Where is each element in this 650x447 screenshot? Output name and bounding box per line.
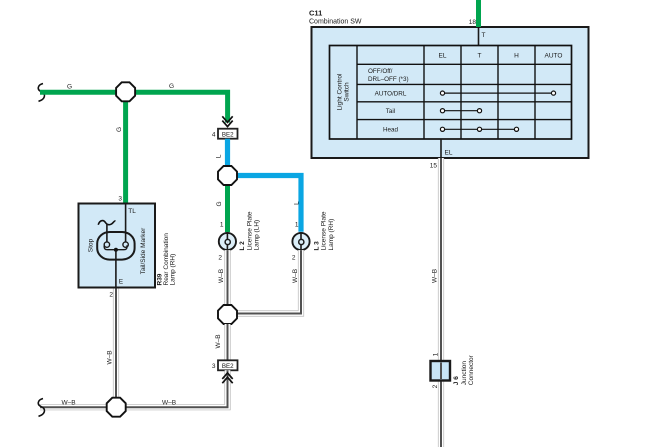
bulb of R39 (dual filament) <box>97 232 134 260</box>
lamp L2 (license plate lamp LH) <box>219 233 236 250</box>
wire: G (green) down to R39 pin 3 <box>123 92 128 204</box>
svg-text:1: 1 <box>295 222 299 229</box>
svg-text:T: T <box>482 32 486 39</box>
lamp L3 (license plate lamp RH) <box>292 233 309 250</box>
svg-text:Junction: Junction <box>461 361 468 386</box>
wire: W-B from junction down to BE2 <box>224 324 230 360</box>
svg-text:L: L <box>293 201 300 205</box>
svg-text:L 2: L 2 <box>239 241 246 251</box>
svg-text:Lamp (LH): Lamp (LH) <box>254 220 261 251</box>
switch position row labels <box>368 68 409 134</box>
svg-text:W–B: W–B <box>61 400 75 407</box>
svg-text:W–B: W–B <box>218 269 225 283</box>
stop filament open lead (squiggle) <box>98 221 115 225</box>
lamp L3 label <box>313 211 335 250</box>
svg-text:L 3: L 3 <box>313 241 320 251</box>
connector BE2 (pin 4) <box>218 129 238 139</box>
svg-text:Tail/Side Marker: Tail/Side Marker <box>140 227 147 274</box>
svg-text:EL: EL <box>445 150 453 157</box>
svg-text:Light Control: Light Control <box>337 73 344 110</box>
wire: W-B from R39 pin 2 down to junction <box>113 288 119 408</box>
svg-text:J 6: J 6 <box>453 376 460 385</box>
wire: G (green) horizontal top, turns down to BE2 <box>40 92 228 122</box>
svg-text:W–B: W–B <box>162 400 176 407</box>
wire: internal lead from bulb to pin 2 (E) <box>115 250 117 288</box>
combination switch C11 block label <box>309 9 362 26</box>
junction node (green wires) <box>116 82 135 101</box>
svg-text:3: 3 <box>118 196 122 203</box>
svg-text:Combination SW: Combination SW <box>309 19 362 26</box>
svg-text:E: E <box>119 279 124 286</box>
svg-text:L: L <box>215 154 222 158</box>
wire break (left end of W-B wire) <box>38 399 44 417</box>
svg-text:W–B: W–B <box>292 269 299 283</box>
wire: L (blue) from junction right and down to L3 <box>230 176 301 232</box>
wire: W-B from C11 pin 15 down to bottom <box>438 158 444 447</box>
bulb common node dot <box>114 248 118 252</box>
connector arrow out of BE2 (pointing up) <box>222 373 232 383</box>
svg-text:OFF/Off/: OFF/Off/ <box>368 68 393 75</box>
svg-text:Lamp (RH): Lamp (RH) <box>328 219 335 251</box>
svg-text:BE2: BE2 <box>222 131 234 138</box>
junction connector J6 <box>431 361 451 381</box>
svg-text:15: 15 <box>430 163 438 170</box>
svg-text:BE2: BE2 <box>222 363 234 370</box>
wire: G (green) into C11 pin 18 <box>476 0 481 27</box>
svg-text:2: 2 <box>109 292 113 299</box>
svg-text:C11: C11 <box>309 9 322 18</box>
svg-text:G: G <box>216 201 223 206</box>
wire: L (blue) from BE2 down to junction <box>225 139 230 176</box>
wire: internal lead from pin 3 to bulb <box>125 204 127 243</box>
rear combination lamp R39 label <box>157 233 177 286</box>
switch contacts Head row <box>440 127 518 131</box>
wire: W-B from L2 pin 2 down to junction <box>224 250 230 314</box>
svg-text:Head: Head <box>383 127 399 134</box>
svg-text:18: 18 <box>469 19 477 26</box>
svg-text:W–B: W–B <box>215 334 222 348</box>
svg-text:2: 2 <box>432 384 439 388</box>
svg-text:3: 3 <box>212 363 216 370</box>
lamp L2 label <box>239 211 261 250</box>
svg-text:TL: TL <box>128 208 136 215</box>
junction node (bottom W-B wires) <box>107 398 126 417</box>
switch contacts Tail row <box>440 109 481 113</box>
table column headers EL T H AUTO <box>439 53 563 60</box>
svg-text:License Plate: License Plate <box>321 211 328 250</box>
svg-text:License Plate: License Plate <box>246 211 253 250</box>
svg-text:Lamp (RH): Lamp (RH) <box>170 254 177 286</box>
svg-text:G: G <box>116 127 123 132</box>
svg-text:AUTO: AUTO <box>545 53 563 60</box>
svg-text:EL: EL <box>439 53 447 60</box>
svg-text:H: H <box>514 53 519 60</box>
connector arrow into BE2 (pointing down) <box>222 116 232 126</box>
combination switch C11 body <box>312 27 589 158</box>
wire: internal lead from squiggle to bulb <box>106 224 108 242</box>
svg-text:W–B: W–B <box>106 350 113 364</box>
svg-text:1: 1 <box>220 222 224 229</box>
svg-text:W–B: W–B <box>431 269 438 283</box>
wire: W-B from L3 pin 2 down and left to junction <box>237 250 301 313</box>
svg-text:G: G <box>67 84 72 91</box>
svg-text:DRL–OFF (*3): DRL–OFF (*3) <box>368 76 409 83</box>
junction node (W-B wires) <box>218 305 237 324</box>
svg-text:Switch: Switch <box>344 82 351 102</box>
light control switch table frame <box>330 46 572 140</box>
light control switch rotated label <box>337 73 351 110</box>
connector BE2 (pin 3) <box>218 360 238 370</box>
switch contacts AUTO/DRL row <box>440 91 555 95</box>
wire: G (green) from junction down to L2 <box>225 178 230 232</box>
svg-text:2: 2 <box>292 255 296 262</box>
svg-text:Tail: Tail <box>386 108 395 115</box>
wire: W-B from BE2 down, left along bottom <box>40 370 228 407</box>
wire: internal lead EL inside C11 <box>440 139 442 158</box>
svg-text:2: 2 <box>218 255 222 262</box>
junction connector J6 label <box>453 354 475 385</box>
rear combination lamp R39 body <box>79 204 156 288</box>
svg-text:Stop: Stop <box>88 238 95 252</box>
wire break (left end of green wire) <box>38 84 44 102</box>
svg-text:Connector: Connector <box>468 354 475 385</box>
junction node (L wires) <box>218 166 237 185</box>
svg-text:T: T <box>478 53 482 60</box>
svg-text:4: 4 <box>212 131 216 138</box>
svg-text:AUTO/DRL: AUTO/DRL <box>375 90 407 97</box>
svg-text:1: 1 <box>433 352 440 356</box>
wire: internal lead T inside C11 <box>478 27 480 46</box>
svg-text:G: G <box>169 83 174 90</box>
